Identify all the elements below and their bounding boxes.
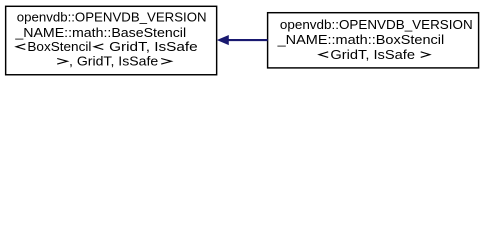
label line 3: &lt; GridT, IsSafe &gt;: [319, 52, 328, 58]
label line 3: &lt; BoxStencil&lt; GridT, IsSafe: [16, 44, 25, 50]
node box: BoxStencil (derived class, current): [268, 13, 479, 68]
node box: BaseStencil (base class): [6, 6, 217, 74]
svg-text:openvdb::OPENVDB_VERSION: openvdb::OPENVDB_VERSION: [280, 17, 473, 32]
svg-text:GridT, IsSafe: GridT, IsSafe: [109, 39, 198, 54]
inheritance arrowhead: [218, 36, 228, 45]
svg-text:, GridT, IsSafe: , GridT, IsSafe: [69, 54, 158, 69]
svg-text:BoxStencil: BoxStencil: [27, 39, 91, 54]
label line 4: &gt;, GridT, IsSafe &gt;: [57, 59, 67, 65]
svg-text:GridT, IsSafe: GridT, IsSafe: [330, 47, 415, 62]
inheritance arrow shaft (derived to base): [228, 39, 268, 41]
svg-text:openvdb::OPENVDB_VERSION: openvdb::OPENVDB_VERSION: [17, 10, 207, 25]
svg-text:_NAME::math::BaseStencil: _NAME::math::BaseStencil: [14, 25, 186, 40]
svg-text:_NAME::math::BoxStencil: _NAME::math::BoxStencil: [277, 32, 445, 47]
